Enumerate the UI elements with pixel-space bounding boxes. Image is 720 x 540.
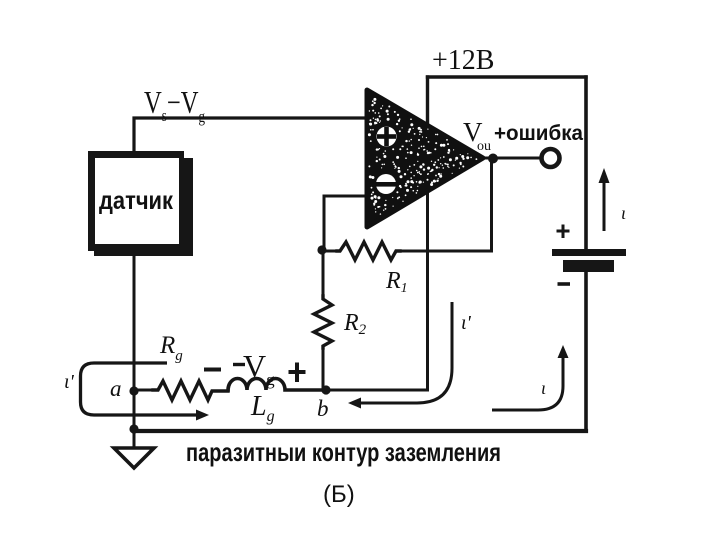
svg-text:(Б): (Б) — [323, 481, 355, 508]
svg-text:+ошибка: +ошибка — [494, 122, 583, 145]
svg-text:ι': ι' — [461, 312, 472, 334]
svg-text:ι: ι — [621, 203, 626, 223]
svg-text:ou: ou — [477, 139, 491, 154]
svg-text:ι': ι' — [64, 371, 75, 393]
svg-text:Vs−Vg: Vs−Vg — [144, 84, 205, 126]
svg-text:датчик: датчик — [99, 187, 173, 215]
svg-text:+12В: +12В — [432, 45, 494, 76]
svg-text:a: a — [110, 376, 122, 401]
svg-text:b: b — [317, 396, 329, 421]
svg-text:ι: ι — [541, 378, 546, 398]
svg-text:паразитныи контур заземления: паразитныи контур заземления — [186, 437, 501, 467]
